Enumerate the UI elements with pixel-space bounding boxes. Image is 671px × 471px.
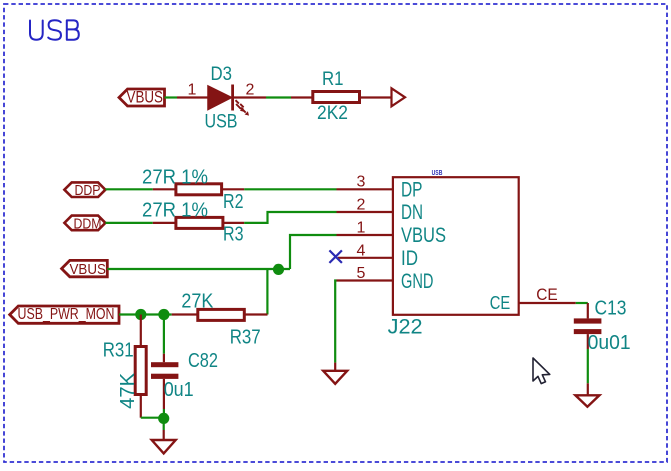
svg-text:USB_PWR_MON: USB_PWR_MON bbox=[18, 306, 115, 323]
svg-text:C82: C82 bbox=[188, 350, 218, 372]
wire DDP to R2 bbox=[105, 188, 152, 190]
wire down to R37 bbox=[266, 269, 268, 315]
junction bbox=[158, 309, 169, 320]
svg-text:DDP: DDP bbox=[75, 182, 101, 199]
svg-text:R1: R1 bbox=[322, 68, 344, 90]
wire GND pin to ground bbox=[335, 281, 336, 363]
svg-text:GND: GND bbox=[401, 270, 434, 293]
ground (C13) bbox=[575, 395, 599, 406]
pin 1 stub bbox=[337, 234, 393, 236]
svg-text:ID: ID bbox=[401, 247, 418, 270]
svg-text:USB: USB bbox=[205, 111, 238, 133]
resistor R2 bbox=[153, 184, 245, 195]
junction bbox=[158, 413, 169, 424]
wire VBUS label to junction bbox=[107, 268, 290, 270]
svg-text:J22: J22 bbox=[388, 316, 423, 339]
ground (C82/R31) bbox=[152, 440, 176, 453]
global label DDM bbox=[64, 215, 105, 232]
svg-text:0u01: 0u01 bbox=[588, 332, 631, 354]
resistor R1 bbox=[291, 92, 392, 103]
global label VBUS (top) bbox=[119, 89, 165, 107]
svg-text:VBUS: VBUS bbox=[70, 261, 107, 278]
svg-text:3: 3 bbox=[357, 174, 366, 191]
wire D3 to R1 bbox=[266, 96, 291, 98]
capacitor C13 bbox=[574, 303, 602, 395]
svg-text:DP: DP bbox=[401, 178, 423, 201]
pin 5 stub bbox=[337, 279, 393, 281]
mouse cursor bbox=[533, 358, 550, 384]
pin 3 stub bbox=[337, 188, 393, 190]
svg-text:R31: R31 bbox=[103, 339, 134, 361]
open hierarchical label arrow bbox=[392, 88, 406, 106]
sheet title USB bbox=[30, 20, 79, 39]
svg-text:1: 1 bbox=[357, 220, 366, 237]
svg-text:0u1: 0u1 bbox=[164, 379, 194, 401]
svg-text:2: 2 bbox=[246, 82, 255, 99]
svg-text:VBUS: VBUS bbox=[127, 89, 164, 107]
wire CE to C13 bbox=[576, 302, 588, 304]
wire up to J22 pin 1 bbox=[290, 235, 337, 269]
svg-text:DN: DN bbox=[401, 201, 423, 224]
svg-text:27R 1%: 27R 1% bbox=[142, 165, 208, 188]
svg-text:USB: USB bbox=[432, 170, 443, 177]
resistor R3 bbox=[153, 217, 244, 228]
resistor R37 bbox=[172, 309, 268, 320]
junction bbox=[135, 309, 146, 320]
svg-text:27K: 27K bbox=[181, 290, 213, 313]
wire VBUS label to D3 bbox=[165, 96, 178, 98]
CE pin stub bbox=[519, 302, 576, 304]
connector J22 bbox=[393, 177, 519, 315]
svg-text:C13: C13 bbox=[595, 298, 627, 320]
svg-text:R37: R37 bbox=[230, 327, 261, 349]
svg-text:CE: CE bbox=[490, 292, 511, 313]
wire R3 to J22 pin 2 bbox=[244, 212, 336, 223]
pin 4 stub bbox=[338, 257, 393, 259]
svg-text:4: 4 bbox=[357, 242, 366, 259]
ground (J22 GND) bbox=[323, 371, 347, 384]
LED D3 bbox=[208, 85, 249, 116]
global label USB_PWR_MON bbox=[10, 306, 119, 323]
wire R2 to J22 pin 3 bbox=[244, 188, 336, 190]
global label VBUS (lower) bbox=[62, 260, 108, 278]
svg-text:5: 5 bbox=[357, 265, 366, 282]
LED D3 pin 1 bbox=[177, 96, 209, 98]
no-connect X on ID bbox=[329, 250, 342, 263]
svg-text:D3: D3 bbox=[211, 63, 233, 85]
LED D3 pin 2 bbox=[233, 96, 266, 98]
capacitor C82 bbox=[151, 315, 178, 415]
svg-text:R2: R2 bbox=[223, 191, 244, 213]
svg-text:27R 1%: 27R 1% bbox=[142, 199, 208, 222]
wire R31 bottom to junction bbox=[141, 417, 164, 419]
wire DDM to R3 bbox=[105, 222, 152, 224]
svg-text:2K2: 2K2 bbox=[317, 102, 348, 124]
svg-text:1: 1 bbox=[188, 82, 197, 99]
svg-text:DDM: DDM bbox=[74, 215, 102, 232]
global label DDP bbox=[64, 182, 105, 199]
svg-text:CE: CE bbox=[536, 286, 558, 304]
svg-text:47K: 47K bbox=[117, 372, 139, 409]
junction bbox=[273, 264, 284, 275]
svg-text:VBUS: VBUS bbox=[401, 224, 446, 247]
pin 2 stub bbox=[337, 211, 393, 213]
svg-text:R3: R3 bbox=[223, 224, 244, 246]
wire USB_PWR_MON to R37 bbox=[119, 313, 172, 315]
resistor R31 bbox=[135, 315, 146, 418]
svg-text:2: 2 bbox=[357, 197, 366, 214]
wire junction to ground bbox=[163, 424, 165, 431]
